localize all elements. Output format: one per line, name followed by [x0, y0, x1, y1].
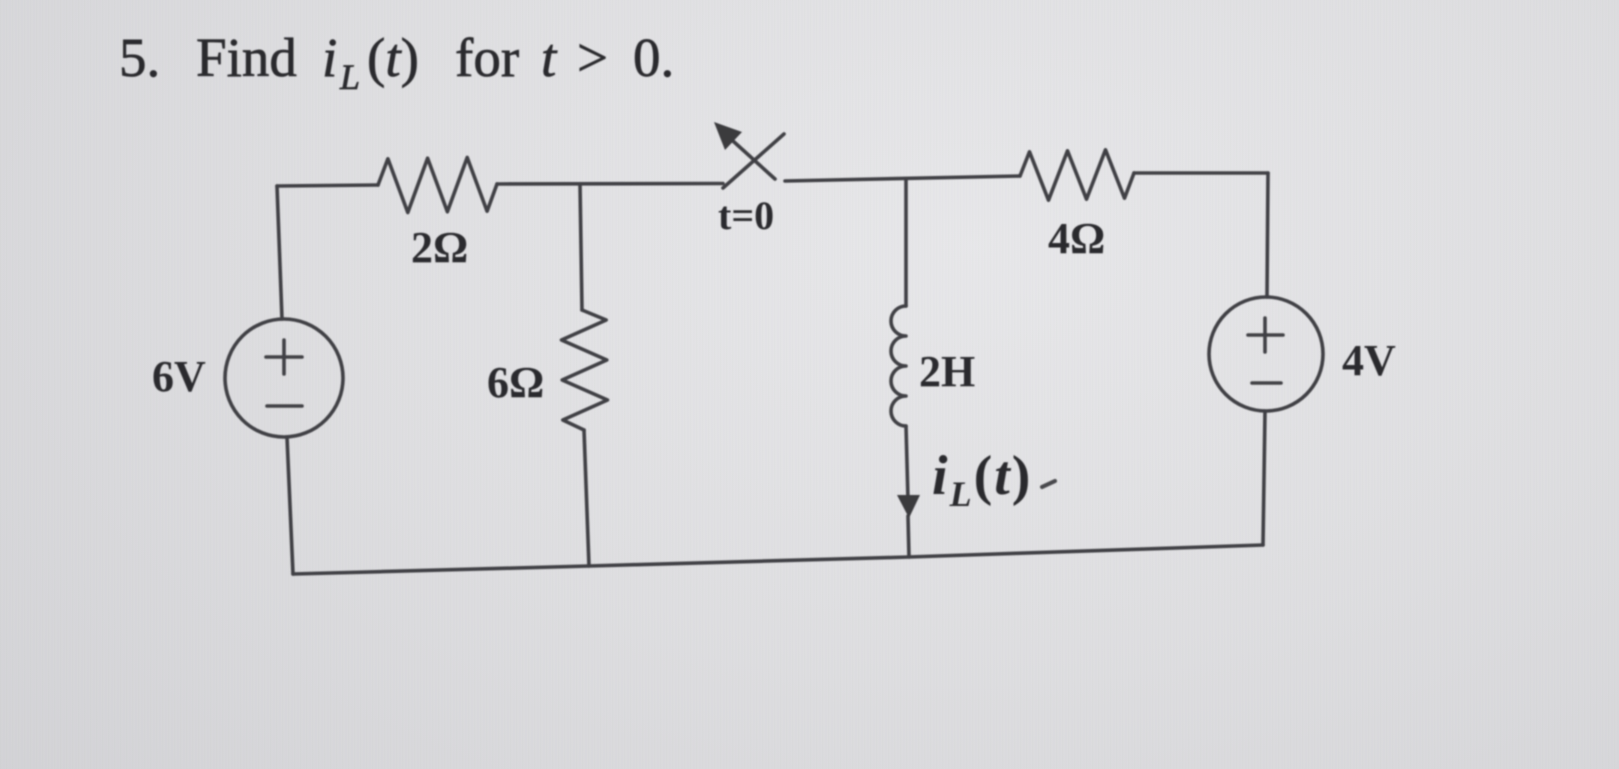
svg-text:i: i: [322, 27, 337, 88]
wire inductor branch upper: [904, 179, 908, 306]
small dash after iL(t): [1042, 481, 1055, 487]
wire left vertical upper: [277, 186, 282, 319]
wire right vertical lower: [1263, 411, 1265, 545]
svg-text:(t): (t): [367, 27, 419, 88]
wire top middle (node to switch left): [497, 182, 723, 186]
wire bottom: [293, 545, 1263, 574]
wire top-right horizontal: [1134, 171, 1268, 175]
svg-text:iL(t): iL(t): [932, 445, 1032, 514]
svg-text:t=0: t=0: [718, 193, 774, 238]
svg-text:2Ω: 2Ω: [411, 223, 468, 272]
wire inductor to arrow: [906, 426, 908, 500]
wire top-left horizontal: [277, 185, 378, 186]
svg-text:4Ω: 4Ω: [1048, 214, 1105, 263]
wire 6ohm branch lower: [584, 430, 589, 566]
svg-text:0.: 0.: [633, 27, 674, 88]
wire switch-right to 4ohm: [785, 176, 1020, 181]
svg-text:5.: 5.: [119, 27, 160, 88]
wire 6ohm branch upper: [580, 184, 582, 310]
svg-text:Find: Find: [196, 27, 297, 88]
V2 plus sign: [1248, 318, 1283, 352]
inductor L 2H coil: [891, 306, 906, 426]
wire right vertical upper: [1267, 173, 1268, 297]
title text: [119, 27, 674, 97]
switch fixed contact line: [723, 134, 784, 188]
voltage source V2 4V circle: [1209, 297, 1323, 411]
resistor R 4ohm: [1020, 150, 1134, 200]
voltage source V1 6V circle: [225, 319, 343, 437]
V2 minus sign: [1252, 381, 1281, 385]
svg-text:>: >: [577, 27, 608, 88]
svg-text:6Ω: 6Ω: [487, 358, 544, 407]
current arrow head iL: [897, 495, 920, 518]
wire left vertical lower: [287, 437, 293, 574]
V1 minus sign: [267, 404, 302, 408]
svg-text:2H: 2H: [919, 347, 975, 396]
svg-text:L: L: [339, 57, 360, 97]
svg-text:6V: 6V: [152, 352, 206, 401]
V1 plus sign: [266, 340, 302, 374]
svg-text:t: t: [541, 27, 558, 88]
svg-text:for: for: [455, 27, 519, 88]
svg-text:4V: 4V: [1342, 336, 1396, 385]
resistor R 6ohm: [562, 310, 608, 430]
switch arm line: [733, 141, 775, 179]
wire below arrow to bottom: [908, 516, 909, 557]
switch arm arrowhead: [714, 122, 742, 150]
resistor R 2ohm: [378, 158, 497, 213]
